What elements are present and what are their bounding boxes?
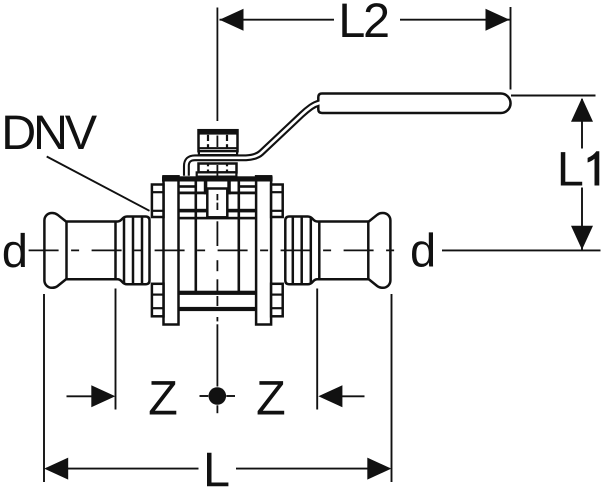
- valve body top bar: [162, 176, 273, 181]
- label Z left: [150, 381, 177, 414]
- right fitting bead line: [367, 222, 370, 280]
- right fitting cone line: [310, 217, 313, 284]
- Z center dot: [209, 387, 227, 405]
- label L2: [342, 3, 387, 37]
- L dimension line: [46, 468, 199, 470]
- upper bolt line 1 right: [239, 185, 256, 188]
- Z arrow left: [67, 395, 94, 397]
- L2 dimension line: [220, 19, 335, 21]
- label d left: [4, 233, 25, 268]
- bolt head bottom-left: [152, 284, 164, 317]
- label DNV: [5, 116, 97, 149]
- L arrow left: [44, 458, 68, 480]
- label Z right: [258, 381, 285, 414]
- L1 extension line top: [511, 95, 596, 97]
- valve body right flange plate: [256, 176, 271, 324]
- body inner wall left: [195, 182, 198, 293]
- upper bolt line 2 left: [179, 192, 208, 195]
- L1 dimension line: [581, 99, 583, 149]
- handle lever bar: [186, 102, 327, 176]
- label d right: [412, 232, 433, 267]
- Z arrow right: [318, 385, 342, 407]
- right fitting tube end line: [318, 222, 321, 280]
- lower bolt shaft line top: [179, 291, 257, 295]
- stem nut: [199, 130, 238, 151]
- L extension line left: [43, 294, 45, 482]
- L2 extension line right: [510, 7, 512, 90]
- bolt head top-right: [271, 185, 283, 218]
- DNV leader line: [47, 157, 150, 211]
- left fitting collar line: [141, 217, 144, 285]
- bolt head top-left: [152, 185, 164, 218]
- upper bolt line 4 full: [179, 217, 257, 220]
- Z extension line left: [115, 289, 117, 410]
- left fitting bead line: [65, 222, 68, 280]
- stem side wall stub right: [227, 182, 231, 195]
- stem block: [207, 189, 227, 218]
- L1 arrow up: [571, 98, 593, 122]
- left fitting tube end line: [114, 222, 117, 280]
- L2 arrow right: [486, 9, 510, 31]
- L2 arrow left: [220, 9, 244, 31]
- L arrow right: [367, 458, 391, 480]
- handle grip: [318, 94, 510, 114]
- stem side wall stub left: [204, 182, 208, 195]
- handle lever bar core: [186, 102, 327, 176]
- valve body left flange plate: [164, 176, 179, 324]
- stem washer: [197, 172, 237, 176]
- L extension line right: [391, 294, 393, 482]
- upper bolt line 3 left: [179, 209, 208, 213]
- bolt head bottom-right: [271, 284, 283, 317]
- left fitting cone line: [123, 217, 126, 284]
- L1 extension line bottom: [442, 249, 601, 251]
- label L1: [561, 152, 582, 185]
- left press fitting: [44, 213, 149, 288]
- L1 arrow down: [571, 226, 593, 250]
- upper bolt line 1 left: [179, 185, 196, 188]
- upper bolt line 2 right: [227, 192, 256, 195]
- horizontal centerline: [29, 249, 401, 251]
- body inner wall right: [238, 182, 241, 293]
- right fitting collar line: [292, 217, 295, 285]
- right press fitting: [285, 213, 390, 288]
- label L bottom: [207, 453, 228, 486]
- Z extension line right: [316, 289, 318, 410]
- stem hex band: [199, 164, 237, 173]
- lower bolt shaft line bottom: [179, 307, 257, 311]
- upper bolt line 3 right: [227, 209, 256, 213]
- vertical centerline: [216, 8, 218, 414]
